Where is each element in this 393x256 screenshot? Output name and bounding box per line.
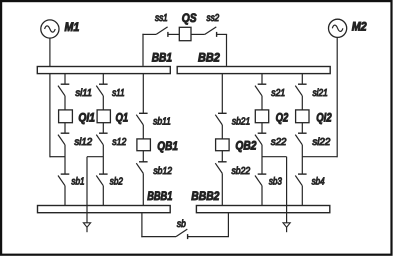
wire sb21 to QB2: [221, 125, 223, 139]
wire BBB1 to sb: [141, 213, 176, 238]
svg-text:sb1: sb1: [71, 177, 84, 188]
svg-text:BB1: BB1: [152, 50, 173, 64]
svg-text:sb22: sb22: [232, 166, 251, 177]
svg-text:Q1: Q1: [116, 110, 129, 124]
svg-text:sb2: sb2: [110, 177, 124, 188]
wire s22 to sb3: [261, 145, 263, 174]
circuit breaker QB1: [137, 139, 178, 153]
disconnector si12: [58, 133, 93, 148]
svg-text:si11: si11: [75, 88, 92, 99]
disconnector sb21: [215, 113, 250, 127]
disconnector sb2: [96, 174, 123, 188]
wire sb2 to BBB1: [102, 186, 104, 206]
svg-text:Q2: Q2: [276, 110, 289, 124]
svg-text:si12: si12: [74, 137, 92, 148]
wire QB2 to sb22: [221, 151, 223, 162]
svg-text:sb4: sb4: [312, 177, 325, 188]
svg-text:QI1: QI1: [78, 110, 95, 124]
svg-text:s11: s11: [112, 88, 125, 99]
svg-text:ss2: ss2: [207, 13, 220, 24]
disconnector si11: [58, 84, 92, 99]
circuit breaker QS: [179, 11, 196, 40]
wire sb1 to BBB1: [64, 186, 66, 206]
wire si21 to QI2: [301, 96, 303, 110]
svg-text:BBB1: BBB1: [147, 189, 172, 203]
wire QI1 to si12: [64, 123, 66, 134]
svg-text:si22: si22: [312, 137, 330, 148]
wire si12 to sb1: [64, 145, 66, 174]
circuit breaker QB2: [216, 139, 257, 153]
busbar BB1: [37, 50, 172, 73]
disconnector sb1: [58, 174, 85, 188]
wire BB2 to si21: [301, 74, 303, 85]
svg-text:BBB2: BBB2: [191, 189, 219, 203]
disconnector si22: [295, 133, 331, 148]
svg-text:si21: si21: [313, 88, 328, 99]
wire BB1 to si11: [64, 74, 66, 85]
disconnector sb3: [255, 174, 282, 187]
svg-text:ss1: ss1: [155, 13, 168, 24]
svg-text:QB1: QB1: [157, 139, 178, 153]
circuit breaker Q1: [97, 110, 128, 125]
disconnector s21: [255, 84, 285, 99]
wire si11 to QI1: [64, 96, 66, 110]
svg-text:QI2: QI2: [316, 110, 332, 124]
wire QS to ss2: [191, 33, 205, 35]
svg-text:BB2: BB2: [198, 50, 220, 64]
wire s11 to Q1: [102, 96, 104, 110]
wire M1 feeder: [50, 38, 65, 158]
svg-text:QB2: QB2: [235, 139, 256, 153]
disconnector ss1: [155, 13, 168, 37]
generator M2: [329, 19, 367, 37]
disconnector s22: [255, 133, 287, 148]
busbar BBB2: [191, 189, 329, 213]
wire BB1 to ss1: [142, 34, 156, 66]
busbar BB2: [177, 50, 330, 73]
wire sb3 to BBB2: [261, 186, 263, 206]
svg-text:M2: M2: [352, 20, 367, 34]
disconnector sb11: [136, 113, 171, 127]
wire sb12 to BBB1: [142, 173, 144, 205]
wire s21 to Q2: [261, 96, 263, 110]
svg-text:sb21: sb21: [232, 117, 250, 128]
wire sb11 to QB1: [142, 125, 144, 139]
circuit breaker Q2: [255, 110, 288, 125]
wire BB2 to sb21: [221, 74, 223, 114]
circuit breaker QI1: [59, 110, 96, 125]
disconnector sb22: [215, 162, 250, 177]
wire BB1 to sb11: [142, 74, 144, 114]
generator M1: [41, 20, 80, 38]
feeder arrow 2: [283, 223, 290, 232]
svg-text:sb3: sb3: [269, 177, 282, 188]
busbar BBB1: [38, 189, 173, 213]
disconnector s11: [96, 84, 124, 99]
wire sb4 to BBB2: [301, 186, 303, 206]
wire BB2 to s21: [261, 74, 263, 85]
svg-text:s21: s21: [271, 88, 285, 99]
wire sb22 to BBB2: [221, 173, 223, 205]
disconnector si21: [295, 84, 328, 99]
svg-text:M1: M1: [65, 20, 80, 34]
disconnector s12: [96, 133, 126, 148]
disconnector ss2: [205, 13, 220, 37]
wire ss1 to QS: [168, 33, 179, 35]
wire QB1 to sb12: [142, 151, 144, 162]
wire feeder tap 2: [262, 157, 287, 223]
wire s12 to sb2: [102, 145, 104, 174]
svg-text:sb12: sb12: [153, 166, 172, 177]
wire QI2 to si22: [301, 123, 303, 134]
disconnector sb: [176, 219, 188, 239]
wire feeder tap 1: [87, 157, 103, 223]
wire M2 feeder: [302, 37, 337, 157]
svg-text:sb11: sb11: [153, 117, 171, 128]
wire BB1 to s11: [102, 74, 104, 85]
disconnector sb4: [295, 174, 325, 187]
wire ss2 to BB2: [217, 34, 227, 66]
svg-text:sb: sb: [177, 219, 186, 230]
wire si22 to sb4: [301, 145, 303, 174]
feeder arrow 1: [83, 223, 90, 232]
wire Q2 to s22: [261, 123, 263, 134]
svg-text:s12: s12: [112, 137, 126, 148]
wire sb to BBB2: [188, 213, 229, 237]
svg-text:QS: QS: [182, 11, 197, 25]
wire Q1 to s12: [102, 123, 104, 134]
disconnector sb12: [136, 162, 172, 177]
circuit breaker QI2: [296, 110, 332, 125]
svg-text:s22: s22: [271, 137, 287, 148]
